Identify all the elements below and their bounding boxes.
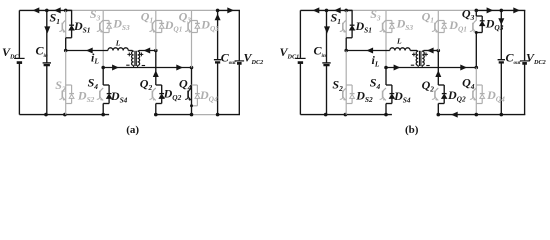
wire right rail lower (circuit b) (524, 65, 526, 115)
transformer primary winding (circuit a) (132, 51, 134, 65)
node bottom rail Q4 (circuit b) (475, 113, 479, 117)
svg-text:iL: iL (372, 53, 380, 68)
transistor Q1 (circuit a) (151, 23, 153, 30)
node bottom bus left (circuit b) (384, 66, 388, 70)
voltage source V (circuit a) (14, 57, 25, 59)
capacitor Cin wire lower (circuit a) (46, 65, 48, 115)
wire transformer bottom bus (circuit a) (103, 67, 191, 69)
transistor S4 (circuit a) (99, 91, 101, 98)
current arrow bottom rail (circuit b) (451, 112, 458, 118)
wire bottom rail gray segment (circuit a) (192, 114, 218, 116)
svg-text:VDC1: VDC1 (280, 45, 300, 60)
svg-text:S3: S3 (370, 7, 381, 22)
wire Q3 leg gray igbt region (circuit b) (475, 10, 477, 20)
svg-text:Q3: Q3 (462, 7, 475, 22)
polarity plus secondary (circuit b) (424, 53, 428, 55)
svg-text:iL: iL (91, 50, 99, 65)
transformer primary bottom stub (circuit a) (133, 65, 135, 67)
wire secondary to Q leg (circuit a) (139, 50, 156, 52)
current arrow up Q2 leg (circuit b) (435, 70, 441, 77)
wire left rail lower (circuit a) (18, 64, 20, 115)
wire top rail right black segment (circuit b) (476, 9, 525, 11)
capacitor Cin (circuit a) (43, 62, 51, 64)
svg-text:(b): (b) (405, 124, 419, 136)
wire S1 leg to midnode (circuit b) (345, 38, 347, 51)
capacitor Cin wire lower (circuit b) (326, 65, 328, 115)
svg-text:S1: S1 (331, 11, 341, 26)
current arrow top right (circuit a) (227, 7, 234, 13)
wire top rail black segment (circuit a) (19, 9, 72, 11)
node bottom bus right (circuit a) (190, 66, 194, 70)
transistor Q4 conducting (circuit a) (187, 91, 189, 98)
wire inductor to transformer (circuit b) (410, 50, 417, 52)
transistor S2 (circuit a) (61, 91, 63, 98)
capacitor Cin wire upper (circuit a) (46, 10, 48, 63)
svg-text:Q2: Q2 (422, 78, 435, 93)
transformer secondary winding (circuit a) (138, 51, 140, 65)
node bottom bus right (circuit b) (475, 66, 479, 70)
wire bottom rail primary side (circuit b) (300, 114, 392, 116)
wire S4 leg upper black (circuit b) (385, 68, 387, 86)
svg-text:Q2: Q2 (140, 77, 153, 92)
capacitor Cin (circuit b) (322, 62, 330, 64)
capacitor Cout wire lower (circuit b) (500, 62, 502, 114)
wire S1 leg gray (circuit a) (65, 10, 67, 37)
wire left rail lower (circuit b) (299, 64, 301, 115)
transistor S3 (circuit b) (382, 23, 384, 30)
svg-text:S4: S4 (370, 76, 381, 91)
svg-text:DQ2: DQ2 (447, 88, 466, 103)
svg-text:DS2: DS2 (355, 89, 373, 104)
wire left rail upper (circuit b) (299, 10, 301, 58)
inductor L (circuit a) (108, 48, 128, 51)
voltage source VDC2 (circuit a) (235, 60, 245, 62)
diode DS4 with conducting path (circuit a) (103, 84, 109, 86)
polarity minus primary (circuit b) (411, 64, 414, 66)
svg-text:Cin: Cin (36, 44, 48, 59)
transformer secondary bottom stub (circuit b) (421, 65, 423, 67)
transistor Q1 (circuit b) (434, 23, 436, 30)
current arrow into Cin (circuit a) (44, 26, 50, 33)
svg-text:S4: S4 (88, 76, 99, 91)
wire secondary to Q leg (circuit b) (424, 50, 439, 52)
svg-text:VDC: VDC (2, 45, 19, 60)
capacitor Cout wire upper (circuit a) (217, 10, 219, 59)
current arrow secondary top (circuit a) (144, 48, 151, 54)
svg-text:Cout: Cout (506, 51, 521, 66)
polarity minus secondary (circuit a) (142, 65, 145, 67)
transformer primary bottom stub (circuit b) (417, 65, 419, 67)
transistor S1 (circuit b) (342, 23, 344, 30)
diode DS4 with conducting path (circuit b) (386, 84, 392, 86)
diode DQ3 (circuit a) (192, 20, 198, 22)
wire Q1 leg gray (circuit a) (155, 10, 157, 50)
capacitor Cin wire upper (circuit b) (326, 10, 328, 63)
svg-text:Q4: Q4 (179, 77, 192, 92)
wire S2 leg gray (circuit a) (65, 51, 67, 115)
current arrow top right 1 (circuit b) (487, 7, 494, 13)
wire S4 leg lower black (circuit b) (385, 104, 387, 115)
svg-text:S1: S1 (50, 11, 60, 26)
transistor Q3 (circuit a) (187, 23, 189, 30)
node top rail Cin (circuit a) (45, 9, 49, 13)
transistor S3 (circuit a) (99, 23, 101, 30)
current arrow into Cin (circuit b) (324, 26, 330, 33)
node bottom bus left (circuit a) (101, 66, 105, 70)
transistor Q3 (circuit b) (472, 23, 474, 30)
svg-text:Q1: Q1 (141, 9, 153, 24)
current arrow top rail 1 (circuit b) (313, 7, 320, 13)
node top rail Cout (circuit b) (500, 9, 504, 13)
diode DQ1 (circuit b) (438, 20, 444, 22)
wire top rail gray segment (circuit b) (353, 9, 477, 11)
node bottom rail Cout (circuit b) (500, 113, 504, 117)
node bottom rail S2 (circuit a) (63, 113, 67, 117)
wire S3 S4 leg gray (circuit b) (385, 10, 387, 67)
wire Q3 leg gray (circuit a) (191, 10, 193, 67)
svg-text:DS2: DS2 (77, 89, 95, 104)
current arrow up Q2 leg (circuit a) (153, 70, 159, 77)
transformer core (circuit b) (419, 51, 421, 66)
current arrow secondary top (circuit b) (427, 48, 434, 54)
wire Q4 leg gray (circuit b) (475, 68, 477, 115)
wire right rail upper (circuit a) (238, 10, 240, 60)
transistor S2 (circuit b) (342, 91, 344, 98)
current arrow bottom bus left (circuit b) (394, 65, 401, 71)
wire Q4 leg black (circuit a) (191, 68, 193, 115)
diode DQ1 (circuit a) (156, 20, 162, 22)
diode DQ4 (circuit a) (192, 84, 198, 86)
node bottom rail S4 (circuit a) (101, 113, 105, 117)
wire midnode to inductor (circuit b) (346, 50, 390, 52)
svg-text:Q4: Q4 (462, 76, 475, 91)
svg-text:DS1: DS1 (355, 19, 372, 34)
diode DS3 (circuit b) (386, 20, 392, 22)
node bottom rail Q2 (circuit b) (437, 113, 441, 117)
node bottom rail Q2 (circuit a) (154, 113, 158, 117)
wire S1 leg to midnode (circuit a) (65, 38, 67, 51)
svg-text:Cin: Cin (314, 44, 326, 59)
diode DS2 (circuit a) (66, 84, 72, 86)
diode DS2 (circuit b) (346, 84, 352, 86)
svg-text:S3: S3 (90, 7, 101, 22)
current arrow top rail 2 (circuit b) (334, 7, 341, 13)
polarity plus primary (circuit a) (127, 53, 131, 55)
wire inductor to transformer (circuit a) (128, 50, 132, 52)
capacitor Cout (circuit b) (498, 59, 505, 61)
node bottom rail Q4 (circuit a) (190, 113, 194, 117)
current arrow top right 2 (circuit b) (513, 7, 520, 13)
diode DQ4 (circuit b) (476, 84, 482, 86)
current arrow bottom bus left (circuit a) (112, 65, 119, 71)
polarity plus secondary (circuit a) (140, 53, 144, 55)
wire top rail gray segment (circuit a) (72, 9, 217, 11)
transistor Q4 (circuit b) (472, 91, 474, 98)
wire left rail upper (circuit a) (18, 10, 20, 58)
svg-text:Cout: Cout (221, 51, 236, 66)
transformer primary top stub (circuit b) (417, 50, 418, 53)
wire Q2 leg lower black (circuit b) (437, 104, 439, 115)
svg-text:DS1: DS1 (73, 19, 90, 34)
wire Q1 leg gray (circuit b) (437, 10, 439, 50)
diode DS1 with conducting path (circuit b) (346, 9, 352, 11)
voltage source V (circuit b) (295, 57, 306, 59)
diode DQ2 with conducting path (circuit b) (438, 84, 444, 86)
capacitor Cout wire upper (circuit b) (500, 10, 502, 59)
diode DS3 (circuit a) (103, 20, 109, 22)
node bottom rail S4 (circuit b) (384, 113, 388, 117)
svg-text:S2: S2 (332, 78, 343, 93)
svg-text:DS3: DS3 (112, 17, 130, 32)
svg-text:DQ4: DQ4 (486, 88, 505, 103)
svg-text:DS3: DS3 (396, 17, 414, 32)
node top rail S1 leg (circuit a) (64, 9, 68, 13)
wire Q2 leg black (circuit a) (155, 51, 157, 86)
current arrow top rail 1 (circuit a) (33, 7, 40, 13)
svg-text:DS4: DS4 (393, 89, 411, 104)
transistor Q2 (circuit b) (434, 91, 436, 98)
wire S1 leg gray (circuit b) (345, 10, 347, 37)
current arrow iL (circuit b) (366, 48, 373, 54)
wire top rail right black segment (circuit a) (218, 9, 240, 11)
wire right rail lower (circuit a) (238, 65, 240, 115)
node top rail Q3 (circuit b) (475, 9, 479, 13)
node DQ4 return (circuit a) (190, 104, 193, 107)
node S leg midpoint (circuit a) (64, 49, 68, 53)
diode DQ2 with conducting path (circuit a) (156, 84, 162, 86)
wire bottom rail out segment (circuit a) (218, 114, 240, 116)
voltage source VDC2 (circuit b) (520, 60, 530, 62)
svg-text:(a): (a) (126, 124, 139, 136)
node top rail Cin (circuit b) (325, 9, 329, 13)
node top rail S1 leg (circuit b) (344, 9, 348, 13)
svg-text:L: L (396, 37, 402, 46)
current arrow bottom bus right (circuit b) (460, 65, 467, 71)
wire right rail upper (circuit b) (524, 10, 526, 60)
node top rail Cout (circuit a) (216, 9, 220, 13)
transformer core (circuit a) (134, 51, 136, 66)
transformer secondary top stub (circuit a) (138, 50, 139, 53)
wire bottom rail Q side black (circuit a) (156, 114, 192, 116)
current arrow bottom bus right (circuit a) (176, 65, 183, 71)
wire S4 leg lower black (circuit a) (102, 104, 104, 115)
wire S4 leg upper black (circuit a) (102, 68, 104, 86)
svg-text:S2: S2 (55, 78, 66, 93)
wire Q3 top link (circuit b) (475, 10, 477, 16)
transistor S1 (circuit a) (61, 23, 63, 30)
wire midnode to inductor (circuit a) (66, 50, 108, 52)
diode DQ3 with conducting path (circuit b) (476, 15, 482, 17)
transformer primary top stub (circuit a) (132, 50, 133, 53)
diode DS1 with conducting path (circuit a) (66, 9, 72, 11)
svg-text:Q3: Q3 (179, 9, 192, 24)
node bottom rail Cin (circuit a) (44, 113, 48, 117)
node Q leg midpoint (circuit b) (437, 49, 441, 53)
wire top rail black segment (circuit b) (300, 9, 352, 11)
node bottom rail Cout (circuit a) (216, 113, 220, 117)
svg-text:Q1: Q1 (422, 9, 434, 24)
current arrow top rail 2 (circuit a) (54, 7, 61, 13)
node bottom rail S2 (circuit b) (344, 113, 348, 117)
wire Q2 leg black (circuit b) (437, 51, 439, 86)
transformer secondary winding (circuit b) (422, 51, 424, 65)
wire Q2 leg lower black (circuit a) (155, 104, 157, 115)
wire transformer bottom bus (circuit b) (386, 67, 476, 69)
node bottom rail Cin (circuit b) (324, 113, 328, 117)
svg-text:VDC2: VDC2 (244, 51, 264, 66)
polarity plus primary (circuit b) (412, 53, 416, 55)
current arrow down Cout (circuit b) (498, 18, 504, 25)
wire S2 leg gray (circuit b) (345, 51, 347, 115)
transformer secondary bottom stub (circuit a) (137, 65, 139, 67)
svg-text:VDC2: VDC2 (526, 51, 546, 66)
polarity minus primary (circuit a) (126, 64, 129, 66)
wire bottom rail Q side black (circuit b) (438, 114, 525, 116)
svg-text:L: L (115, 38, 121, 47)
wire bottom rail primary side (circuit a) (19, 114, 109, 116)
svg-text:DQ4: DQ4 (199, 88, 218, 103)
polarity minus secondary (circuit b) (426, 65, 429, 67)
transistor Q2 (circuit a) (151, 91, 153, 98)
node Q leg midpoint (circuit a) (154, 49, 158, 53)
wire S3 S4 leg gray (circuit a) (102, 10, 104, 67)
wire Q3 leg to bottom bus (circuit b) (475, 33, 477, 68)
node Q3 emitter (circuit b) (475, 31, 478, 34)
transistor S4 (circuit b) (382, 91, 384, 98)
current arrow up Cout (circuit a) (215, 14, 221, 21)
svg-text:DS4: DS4 (110, 89, 128, 104)
capacitor Cout wire lower (circuit a) (217, 62, 219, 114)
current arrow iL (circuit a) (86, 48, 93, 54)
transformer secondary top stub (circuit b) (422, 50, 423, 53)
transformer primary winding (circuit b) (416, 51, 418, 65)
node S leg midpoint (circuit b) (344, 49, 348, 53)
inductor L (circuit b) (390, 48, 410, 51)
capacitor Cout (circuit a) (214, 59, 221, 61)
